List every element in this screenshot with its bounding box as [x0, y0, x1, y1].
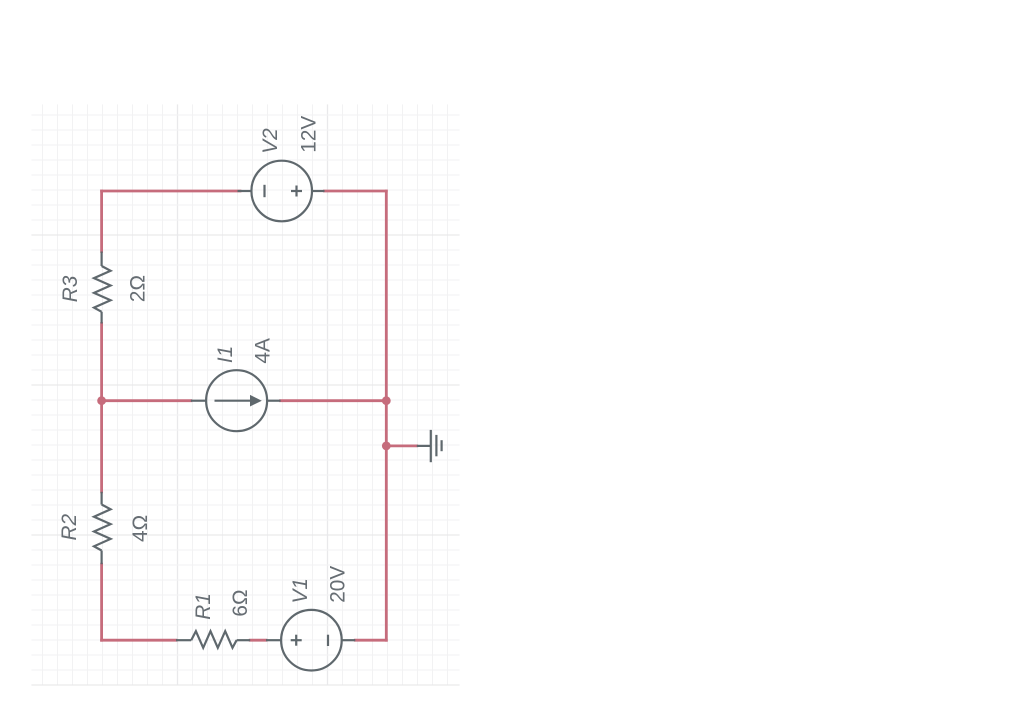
- wire right vertical upper: [385, 191, 388, 401]
- wire R2 to bottom-left corner: [100, 564, 103, 640]
- resistor R3: [94, 252, 111, 324]
- node C junction: [382, 396, 391, 405]
- voltage source V2: [238, 161, 325, 222]
- svg-text:20V: 20V: [327, 566, 350, 603]
- wire R3 to node B: [100, 324, 103, 401]
- ground node junction: [382, 442, 391, 451]
- svg-text:12V: 12V: [298, 116, 321, 153]
- wire left top vertical to R3: [100, 191, 103, 252]
- svg-text:I1: I1: [214, 346, 237, 363]
- wire ground node to bottom-right corner: [385, 446, 388, 640]
- ground: [417, 430, 442, 462]
- svg-text:R2: R2: [58, 513, 81, 540]
- resistor R2: [94, 492, 111, 564]
- wire node C to ground node: [385, 401, 388, 446]
- wire bottom-left to R1: [102, 639, 176, 642]
- wire node B to R2: [100, 401, 103, 492]
- resistor R1: [176, 631, 250, 648]
- wire I1 to node C: [281, 399, 387, 402]
- node B junction: [97, 396, 106, 405]
- wire ground stub: [386, 444, 417, 447]
- wire V1 - to bottom-right: [355, 639, 386, 642]
- voltage source V1: [266, 610, 355, 671]
- svg-text:V2: V2: [259, 128, 282, 154]
- wire node B to I1: [102, 399, 191, 402]
- wire R1 to V1: [250, 639, 266, 642]
- svg-text:4Ω: 4Ω: [129, 515, 152, 542]
- svg-text:R1: R1: [192, 593, 215, 620]
- svg-text:V1: V1: [289, 578, 312, 603]
- svg-text:2Ω: 2Ω: [127, 275, 150, 302]
- current source I1: [191, 370, 281, 431]
- wire top-left (node A to V2 -): [102, 190, 240, 193]
- svg-text:6Ω: 6Ω: [229, 589, 252, 616]
- svg-text:4A: 4A: [252, 338, 275, 364]
- wire V2 + to top-right corner: [325, 190, 387, 193]
- svg-text:R3: R3: [59, 275, 82, 302]
